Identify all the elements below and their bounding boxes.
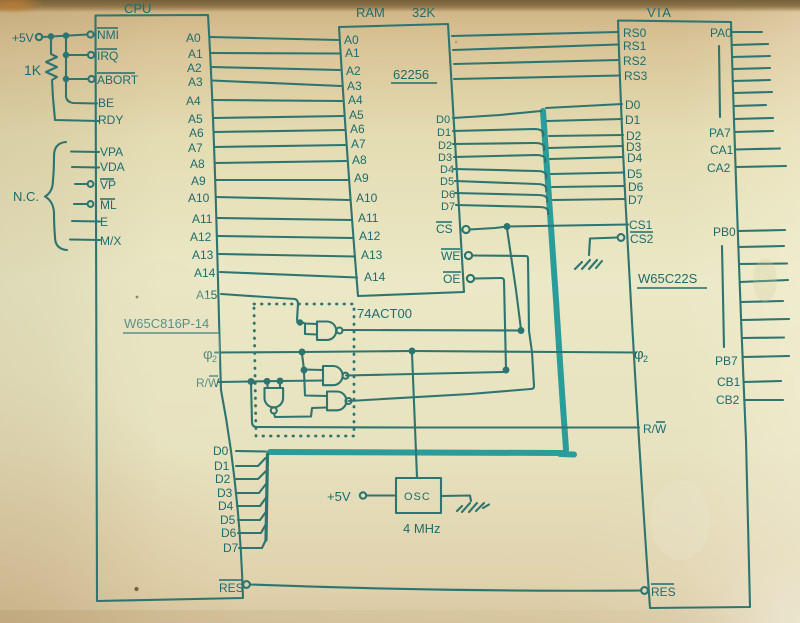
svg-text:D6: D6 bbox=[221, 526, 237, 540]
svg-text:RES: RES bbox=[651, 585, 676, 599]
svg-text:D2: D2 bbox=[215, 472, 231, 486]
VIA pin label PB0 bbox=[713, 225, 736, 239]
svg-text:N.C.: N.C. bbox=[13, 189, 39, 204]
RAM OE bubble bbox=[467, 275, 474, 282]
VIA port A stubs PA0-PA7 bbox=[731, 32, 773, 119]
VIA R/W pin label (overline on W) bbox=[643, 422, 667, 436]
svg-text:A0: A0 bbox=[186, 31, 201, 45]
cpu data bus collector vertical bbox=[266, 454, 268, 540]
svg-text:D7: D7 bbox=[628, 193, 644, 207]
wire A13 bbox=[219, 254, 355, 257]
svg-text:2: 2 bbox=[643, 354, 648, 364]
VIA pin label CA1 bbox=[710, 143, 734, 157]
svg-text:CS1: CS1 bbox=[629, 218, 653, 232]
svg-text:D4: D4 bbox=[218, 499, 234, 513]
RAM CS bubble bbox=[462, 226, 469, 233]
wire RAM D1 to bus, hop bbox=[453, 129, 543, 136]
label N.C. bbox=[13, 189, 39, 204]
wire A5 bbox=[213, 116, 343, 118]
R/W wire CPU to gates bbox=[219, 379, 323, 384]
svg-text:RS3: RS3 bbox=[624, 69, 648, 83]
CPU pin label ABORT (overline) bbox=[97, 73, 139, 87]
CPU data pin D7 rung bbox=[239, 540, 266, 549]
R/W wire down and to VIA bbox=[251, 384, 639, 428]
VIA PA7 stub bbox=[735, 131, 773, 132]
wire bus to VIA D7 bbox=[553, 199, 625, 200]
svg-text:D0: D0 bbox=[436, 114, 450, 126]
CPU pin label M/X bbox=[100, 234, 121, 248]
svg-text:+5V: +5V bbox=[12, 31, 34, 45]
svg-text:D6: D6 bbox=[628, 180, 644, 194]
VIA PA0..PA7 range line bbox=[719, 46, 720, 117]
wire bus to VIA D2 bbox=[549, 135, 623, 136]
svg-text:M/X: M/X bbox=[100, 234, 121, 248]
wire bus to VIA D1 bbox=[547, 119, 622, 121]
CPU pin label NMI (overline) bbox=[97, 28, 119, 42]
svg-text:RAM: RAM bbox=[356, 5, 385, 20]
svg-text:RS2: RS2 bbox=[623, 54, 647, 68]
svg-text:RDY: RDY bbox=[98, 113, 123, 127]
svg-text:A11: A11 bbox=[358, 211, 379, 225]
phi2 branch into NAND2/NAND3 inputs bbox=[302, 354, 327, 396]
svg-text:A14: A14 bbox=[194, 266, 216, 280]
svg-text:D7: D7 bbox=[223, 541, 239, 555]
svg-text:A13: A13 bbox=[192, 248, 214, 262]
svg-text:A1: A1 bbox=[188, 47, 203, 61]
RAM pin label WE (overline) bbox=[441, 249, 460, 263]
svg-text:74ACT00: 74ACT00 bbox=[357, 306, 412, 321]
wire bus to VIA D5 bbox=[551, 173, 624, 175]
CPU pin labels A0-A15 bbox=[186, 31, 218, 302]
wire A8 bbox=[215, 161, 346, 163]
VIA pin label CS1 bbox=[629, 218, 653, 232]
wire RES CPU to VIA bbox=[250, 585, 641, 591]
svg-text:CA2: CA2 bbox=[707, 161, 731, 175]
svg-text:BE: BE bbox=[98, 96, 114, 110]
NAND gate U4C (phi2 inv-RW -> WE) bbox=[327, 392, 352, 411]
n.c. stub M/X bbox=[70, 238, 100, 241]
wire bus to VIA D3 bbox=[549, 146, 623, 148]
RAM pin label OE (overline) bbox=[443, 272, 461, 286]
CPU data pin D6 rung bbox=[238, 524, 266, 533]
dotted outline 74ACT00 bbox=[254, 304, 354, 436]
svg-text:D4: D4 bbox=[627, 151, 643, 165]
svg-text:A8: A8 bbox=[352, 153, 367, 167]
CPU U1 W65C816P-14 box bbox=[95, 15, 243, 601]
svg-text:WE: WE bbox=[441, 249, 460, 263]
VIA RES bubble bbox=[641, 587, 648, 594]
svg-text:D2: D2 bbox=[438, 140, 452, 152]
wire A3 bbox=[212, 81, 341, 87]
wire A9 bbox=[216, 179, 348, 181]
wire A6 bbox=[214, 130, 344, 132]
CPU data pin D2 rung bbox=[236, 471, 266, 479]
VIA CA1 stub bbox=[735, 149, 780, 150]
svg-text:R/W: R/W bbox=[643, 422, 667, 436]
CPU R/W pin label (overline on W) bbox=[196, 376, 220, 390]
paper specks bbox=[134, 41, 457, 591]
wire RAM D4 to bus, hop bbox=[454, 169, 546, 178]
svg-text:A6: A6 bbox=[189, 126, 204, 140]
N.C. brace bbox=[45, 142, 67, 250]
NAND gate U4A (A15 inverter) bbox=[297, 320, 343, 340]
RAM pin labels A0-A14 bbox=[344, 33, 386, 284]
svg-text:PB0: PB0 bbox=[713, 225, 736, 239]
svg-text:CB1: CB1 bbox=[717, 375, 741, 389]
svg-text:A2: A2 bbox=[346, 64, 361, 78]
CPU phi2 pin label bbox=[203, 346, 217, 364]
VIA port B stubs PB0-PB7 bbox=[738, 230, 789, 357]
VIA pin label CA2 bbox=[707, 161, 731, 175]
VIA RES pin label (overline) bbox=[651, 584, 676, 599]
svg-text:D0: D0 bbox=[213, 444, 229, 458]
VIA CS2 bubble bbox=[618, 234, 625, 241]
CPU data pin D3 rung bbox=[237, 484, 266, 493]
svg-text:CA1: CA1 bbox=[710, 143, 734, 157]
wire A11 bbox=[217, 218, 352, 220]
CPU data pin D5 rung bbox=[238, 511, 267, 520]
svg-text:VIA: VIA bbox=[647, 5, 672, 20]
oscillator OSC box bbox=[396, 478, 441, 513]
svg-text:RS1: RS1 bbox=[623, 39, 647, 53]
svg-text:A4: A4 bbox=[348, 93, 363, 107]
svg-text:D5: D5 bbox=[220, 513, 236, 527]
wire +5V rail to IRQ ABORT BE bbox=[64, 38, 97, 104]
+5V terminal (top-left) bbox=[36, 34, 42, 40]
svg-text:E: E bbox=[100, 215, 108, 229]
wire A7 bbox=[214, 145, 345, 147]
CPU pin label VPA bbox=[100, 145, 123, 159]
CPU pin label E bbox=[100, 215, 108, 229]
svg-text:A5: A5 bbox=[349, 108, 364, 122]
label W65C816P-14 bbox=[123, 316, 219, 333]
svg-text:A12: A12 bbox=[359, 229, 381, 243]
oscillator feed wire to phi2 bbox=[412, 353, 417, 477]
svg-text:A12: A12 bbox=[190, 230, 212, 244]
wire A0 bbox=[210, 37, 339, 40]
n.c. stub E bbox=[72, 220, 100, 223]
wire R1 to RDY bbox=[53, 98, 99, 121]
CPU pin label ML (overline) bbox=[100, 198, 117, 212]
svg-text:D5: D5 bbox=[440, 176, 454, 188]
svg-text:ML: ML bbox=[100, 198, 117, 212]
CPU RES pin label (overline) bbox=[219, 580, 244, 595]
wire bus to VIA D6 bbox=[552, 186, 624, 187]
svg-text:A7: A7 bbox=[351, 137, 366, 151]
svg-text:A13: A13 bbox=[361, 248, 383, 262]
CPU data pin D1 rung bbox=[236, 458, 266, 466]
svg-text:A9: A9 bbox=[191, 174, 206, 188]
wire RAM D5 to bus, hop bbox=[455, 181, 546, 191]
label VIA title bbox=[647, 5, 672, 20]
CPU pin label VDA bbox=[100, 160, 125, 174]
wire A4 bbox=[212, 100, 342, 101]
RAM pin label CS (overline) bbox=[436, 222, 453, 236]
NAND gate U4B (phi2/RW -> OE) bbox=[323, 366, 349, 385]
+5V terminal (osc) bbox=[360, 492, 396, 498]
svg-text:PA7: PA7 bbox=[709, 126, 731, 140]
wire RS2 bbox=[454, 60, 619, 64]
svg-text:D1: D1 bbox=[437, 127, 451, 139]
wire +5V to NMI bbox=[43, 31, 94, 38]
svg-text:A8: A8 bbox=[190, 157, 205, 171]
svg-text:VP: VP bbox=[100, 178, 116, 192]
VIA phi2 pin label bbox=[634, 346, 648, 364]
VIA pin label CB1 bbox=[717, 375, 741, 389]
label OSC bbox=[404, 491, 431, 503]
svg-text:A11: A11 bbox=[192, 212, 213, 226]
svg-text:D3: D3 bbox=[438, 152, 452, 164]
svg-text:D4: D4 bbox=[440, 164, 454, 176]
VIA CB1 stub bbox=[744, 381, 781, 382]
CPU data pin D4 rung bbox=[237, 497, 267, 506]
svg-text:NMI: NMI bbox=[97, 28, 119, 42]
wire RS1 bbox=[453, 45, 618, 51]
resistor R1 1K bbox=[46, 39, 57, 99]
svg-text:A3: A3 bbox=[188, 75, 203, 89]
n.c. stub VPA bbox=[71, 150, 99, 153]
VIA pin label CS2 (overline) bbox=[630, 232, 654, 246]
wire WE net to NAND3 output bbox=[349, 256, 534, 402]
phi2 clock wire CPU to VIA bbox=[215, 349, 636, 355]
svg-text:A10: A10 bbox=[188, 191, 210, 205]
VIA CB2 stub bbox=[744, 399, 783, 401]
wire bus to VIA D4 bbox=[550, 157, 623, 159]
svg-text:A9: A9 bbox=[354, 171, 369, 185]
RAM WE bubble bbox=[465, 252, 472, 259]
wire RAM D2 to bus, hop bbox=[453, 143, 544, 150]
svg-text:D3: D3 bbox=[217, 486, 233, 500]
svg-text:A10: A10 bbox=[356, 191, 378, 205]
svg-text:ABORT: ABORT bbox=[97, 73, 139, 87]
svg-text:D5: D5 bbox=[627, 167, 643, 181]
svg-text:62256: 62256 bbox=[393, 67, 429, 82]
wire RAM D3 to bus, hop bbox=[454, 155, 545, 162]
wire RS3 bbox=[454, 76, 620, 80]
wire A14 bbox=[220, 272, 357, 278]
wire OE net to NAND2 output bbox=[346, 278, 508, 376]
svg-text:1K: 1K bbox=[24, 62, 42, 78]
label 62256 bbox=[391, 67, 437, 83]
svg-text:CB2: CB2 bbox=[716, 393, 740, 407]
svg-text:RS0: RS0 bbox=[623, 26, 647, 40]
wire RAM D0 to bus bbox=[453, 111, 541, 118]
wire CS2 to ground bbox=[589, 238, 618, 256]
svg-text:+5V: +5V bbox=[327, 489, 351, 504]
CPU data pin D0 rung bbox=[236, 450, 266, 453]
VIA pin labels D0-D7 bbox=[625, 98, 644, 207]
n.c. stub VDA bbox=[72, 166, 99, 169]
svg-text:32K: 32K bbox=[412, 5, 435, 20]
svg-text:A3: A3 bbox=[347, 79, 362, 93]
svg-text:CS2: CS2 bbox=[630, 232, 654, 246]
wire A2 bbox=[211, 67, 340, 70]
ground symbol (osc) bbox=[457, 503, 489, 512]
wire RS0 bbox=[452, 32, 618, 36]
svg-text:A1: A1 bbox=[345, 46, 360, 60]
n.c. stub ML bbox=[74, 201, 93, 207]
svg-text:A2: A2 bbox=[187, 61, 202, 75]
label 4MHz bbox=[403, 521, 441, 536]
svg-text:4 MHz: 4 MHz bbox=[403, 521, 441, 536]
svg-text:D6: D6 bbox=[441, 189, 455, 201]
label RAM 32K title bbox=[356, 5, 435, 20]
wire CS net: RAM CS - junction - VIA CS1 bbox=[470, 224, 629, 229]
faint stains bbox=[100, 258, 777, 560]
svg-text:W65C22S: W65C22S bbox=[638, 271, 698, 286]
svg-text:OE: OE bbox=[443, 272, 460, 286]
wire RAM D7 to bus, hop bbox=[456, 205, 548, 214]
VIA pin label PB7 bbox=[715, 354, 738, 368]
wire RAM D6 to bus, hop bbox=[455, 193, 547, 202]
data bus thick vertical+horizontal (marker) bbox=[270, 111, 574, 455]
CPU pin label VP (overline) bbox=[100, 178, 116, 192]
label W65C22S bbox=[637, 271, 707, 288]
svg-text:VDA: VDA bbox=[100, 160, 125, 174]
RAM U2 62256 box bbox=[339, 24, 464, 296]
svg-text:D0: D0 bbox=[625, 98, 641, 112]
VIA pin labels RS0-RS3 bbox=[623, 26, 648, 83]
CPU pin label IRQ (overline) bbox=[97, 49, 118, 63]
svg-text:A5: A5 bbox=[188, 112, 203, 126]
VIA pin label PA7 bbox=[709, 126, 731, 140]
wire bus to VIA D0 bbox=[546, 104, 622, 108]
CPU RES bubble bbox=[243, 581, 250, 588]
VIA pin label CB2 bbox=[716, 393, 740, 407]
svg-text:A4: A4 bbox=[186, 94, 201, 108]
VIA U3 W65C22S box bbox=[618, 21, 750, 609]
wire osc to ground bbox=[441, 496, 471, 502]
svg-text:A7: A7 bbox=[188, 141, 203, 155]
svg-text:RES: RES bbox=[219, 581, 244, 595]
wire A15 to NAND gate bbox=[221, 294, 298, 320]
svg-text:CS: CS bbox=[436, 222, 453, 236]
label CPU title bbox=[124, 1, 151, 16]
svg-text:PB7: PB7 bbox=[715, 354, 738, 368]
VIA PB0..PB7 range line bbox=[722, 246, 724, 347]
label 74ACT00 bbox=[357, 306, 412, 321]
CPU pin labels D0-D7 bbox=[213, 444, 239, 555]
wire A10 bbox=[216, 197, 350, 200]
svg-text:CPU: CPU bbox=[124, 1, 151, 16]
NAND gate U4D (R/W inverter, pointing down) bbox=[265, 382, 284, 414]
VIA CA2 stub bbox=[736, 166, 786, 167]
CPU pin label BE bbox=[98, 96, 114, 110]
label +5V (top left) bbox=[12, 31, 34, 45]
svg-text:D1: D1 bbox=[214, 459, 230, 473]
svg-text:A6: A6 bbox=[350, 122, 365, 136]
svg-text:D7: D7 bbox=[441, 201, 455, 213]
RAM pin labels D0-D7 bbox=[436, 114, 455, 213]
svg-text:A14: A14 bbox=[364, 270, 386, 284]
ground symbol (CS2) bbox=[575, 260, 602, 269]
CPU pin label RDY bbox=[98, 113, 123, 127]
label +5V (osc) bbox=[327, 489, 351, 504]
wire U4D output to U4C input bbox=[274, 408, 327, 418]
svg-text:VPA: VPA bbox=[100, 145, 123, 159]
wire A12 bbox=[218, 236, 353, 238]
svg-text:IRQ: IRQ bbox=[97, 49, 118, 63]
wire A1 bbox=[211, 52, 339, 55]
label 1K bbox=[24, 62, 42, 78]
n.c. stub VP bbox=[75, 181, 93, 187]
VIA pin label PA0 bbox=[710, 26, 732, 40]
wire CS vertical to NAND1 output bbox=[343, 229, 523, 333]
svg-text:PA0: PA0 bbox=[710, 26, 732, 40]
svg-text:OSC: OSC bbox=[404, 491, 431, 503]
svg-text:A0: A0 bbox=[344, 33, 359, 47]
svg-text:D1: D1 bbox=[625, 113, 641, 127]
